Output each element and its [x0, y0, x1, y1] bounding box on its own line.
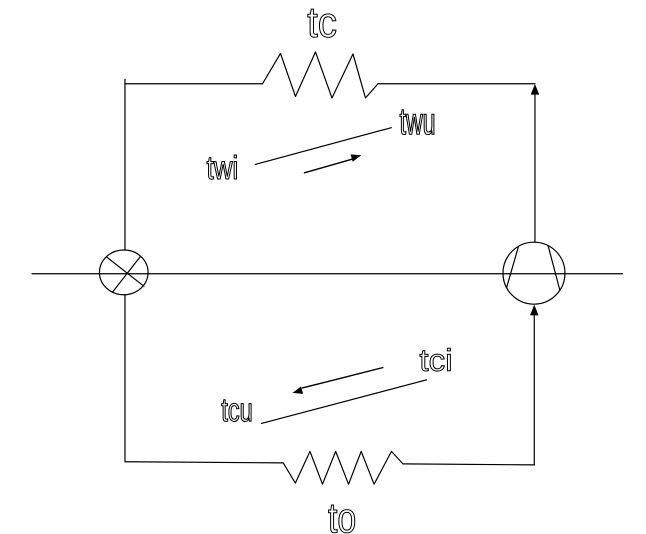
wire top horizontal right segment: [378, 83, 535, 85]
wire left vertical upper: [124, 84, 126, 250]
arrow up at top-right corner: [531, 84, 540, 95]
flow line tci to tcu: [261, 380, 426, 424]
resistor tc (condenser zigzag): [262, 52, 378, 98]
label to: [329, 505, 355, 533]
resistor to (evaporator zigzag): [283, 451, 403, 484]
label twu: [400, 110, 434, 135]
flow arrow pointing left (coolant side): [292, 368, 382, 394]
wire bottom horizontal left segment: [125, 462, 283, 463]
label tcu: [222, 400, 252, 422]
wire top horizontal left segment: [125, 83, 263, 85]
middle horizontal line: [32, 273, 622, 275]
wire stub above top-left corner: [124, 79, 126, 84]
compressor (circle with two chords): [503, 242, 565, 304]
label tci: [420, 348, 450, 371]
wire bottom horizontal right segment: [403, 464, 534, 465]
arrow up into compressor bottom: [530, 305, 539, 316]
expansion valve (circle with X): [99, 250, 148, 295]
label twi: [207, 155, 236, 179]
label tc: [308, 9, 336, 37]
flow line twi to twu: [255, 128, 391, 165]
wire right vertical upper: [534, 88, 536, 242]
wire left vertical lower: [124, 295, 126, 462]
wire right vertical lower: [533, 309, 535, 464]
flow arrow pointing right (water side): [304, 154, 361, 172]
